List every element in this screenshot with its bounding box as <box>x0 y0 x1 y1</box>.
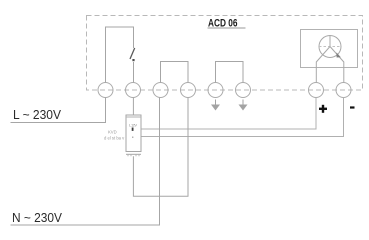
power module U1 pins <box>128 155 139 157</box>
terminal 4 <box>181 83 196 98</box>
terminal 5 <box>208 83 223 98</box>
fan dashed diameter <box>319 46 341 48</box>
wire bracket terminals 3-4 <box>161 62 189 83</box>
arrow under terminal 5 <box>211 100 220 111</box>
fan spoke vertical <box>329 36 331 47</box>
dashed enclosure box ACD 06 <box>87 16 363 91</box>
svg-text:d el st ba v: d el st ba v <box>104 136 125 141</box>
fan spoke / wire to terminal 7 <box>316 47 330 83</box>
fan spoke / wire to terminal 8 <box>330 47 344 83</box>
power module U1 body <box>126 115 141 152</box>
label ACD 06 <box>208 18 246 30</box>
terminal 2 <box>126 83 141 98</box>
fan box <box>301 30 358 68</box>
wire N to terminal 3 <box>11 98 160 226</box>
power module U1 top inner line <box>126 116 141 118</box>
terminal 8 (-) <box>336 83 351 98</box>
svg-text:N ~ 230V: N ~ 230V <box>12 210 62 225</box>
fan M1 circle <box>319 36 341 58</box>
power module U1 bottom band <box>126 153 141 155</box>
wire bracket terminals 5-6 <box>216 62 244 83</box>
wire terminal 2 to module top <box>132 98 134 116</box>
wire stub below switch <box>133 62 135 83</box>
fan rotation arrowhead <box>337 53 341 58</box>
label + <box>319 105 327 113</box>
wire bracket terminals 1-2 <box>106 27 134 83</box>
switch S1 blade <box>130 48 135 59</box>
svg-text:KVD: KVD <box>108 130 117 135</box>
arrow under terminal 6 <box>239 100 248 111</box>
wire terminal 8 to module - output <box>142 98 344 137</box>
svg-text:L 12V: L 12V <box>129 123 137 128</box>
terminal 6 <box>236 83 251 98</box>
label - <box>350 106 355 108</box>
wire L to terminal 1 <box>11 98 106 123</box>
terminal 1 <box>98 83 113 98</box>
wire terminal 7 to module + output <box>142 98 317 130</box>
wire module bottom to terminal 4 <box>133 98 188 197</box>
switch S1 contact dot <box>132 59 134 61</box>
terminal 3 <box>153 83 168 98</box>
terminal 7 (+) <box>309 83 324 98</box>
svg-text:L ~ 230V: L ~ 230V <box>13 107 61 122</box>
power module U1 plus mark <box>132 128 134 131</box>
power module U1 minus mark <box>132 137 133 138</box>
